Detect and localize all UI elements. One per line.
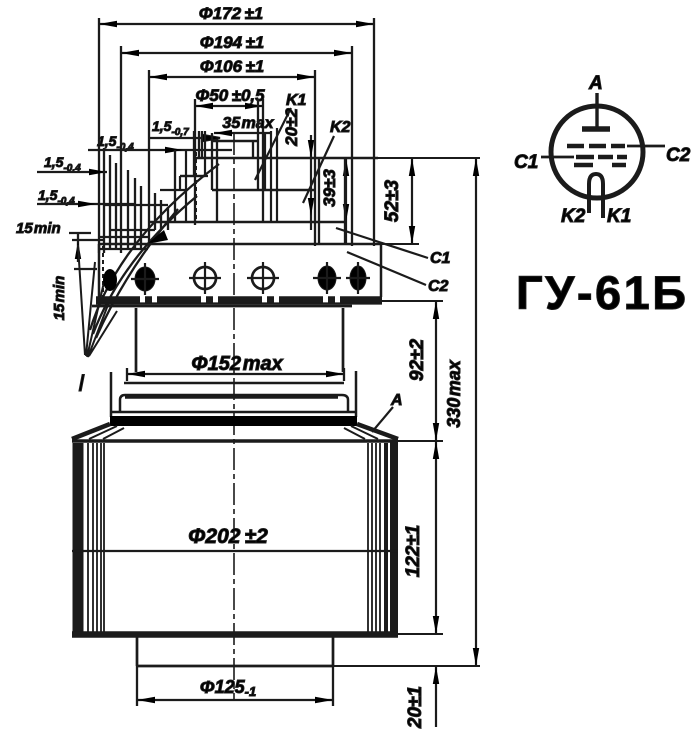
step y190 (212, 189, 315, 192)
svg-text:C1: C1 (514, 152, 538, 173)
svg-text:K1: K1 (286, 92, 307, 109)
svg-text:I: I (78, 370, 85, 397)
flange top (99, 243, 381, 246)
bottom cylinder (137, 637, 333, 666)
ceramic cylinder (136, 308, 343, 372)
dim 330max line (473, 158, 479, 666)
left cluster verticals (104, 148, 141, 253)
radiator top ext right (398, 440, 443, 442)
dim Φ106±1 line (149, 70, 315, 246)
svg-text:15 min: 15 min (16, 220, 61, 237)
dim 39±3 line (343, 158, 349, 244)
inner cap extras (202, 128, 277, 222)
svg-text:A: A (588, 73, 603, 94)
radiator right fin band (368, 443, 380, 632)
left small steps (99, 205, 168, 249)
ring y383 (124, 382, 344, 385)
bolt hole open 3 (189, 262, 221, 294)
svg-text:Φ152 max: Φ152 max (191, 353, 283, 375)
tube symbol envelope U1 (551, 106, 643, 198)
dim Φ50±0.5 line (195, 99, 263, 225)
svg-text:Φ172 ±1: Φ172 ±1 (199, 4, 264, 23)
svg-text:K2: K2 (330, 119, 351, 136)
wall x194 (194, 131, 199, 176)
leader A (372, 407, 393, 432)
leader line 1 (150, 135, 220, 141)
svg-text:C2: C2 (428, 278, 449, 295)
bolt hole dark 6 (346, 262, 370, 294)
dim Φ125 extensions (137, 666, 333, 706)
svg-text:K1: K1 (607, 206, 631, 227)
bottom ext right for 20 and 330 (333, 665, 480, 667)
dim 92±2 line (433, 301, 439, 441)
svg-text:20±2: 20±2 (282, 108, 301, 147)
grid row 1 dashes (567, 144, 625, 149)
svg-text:C2: C2 (666, 145, 691, 166)
anode lead (595, 93, 598, 128)
step y190 left part (160, 189, 186, 191)
dim 35max line (214, 130, 271, 136)
svg-text:35 max: 35 max (222, 115, 274, 132)
dim Φ125 line (137, 697, 333, 703)
svg-text:122±1: 122±1 (403, 525, 424, 578)
svg-text:ГУ-61Б: ГУ-61Б (516, 266, 689, 319)
bolt hole dark 5 (313, 262, 341, 294)
dim 15min vertical small (72, 233, 103, 269)
radiator top (72, 439, 398, 442)
bolt hole dark 2 (131, 263, 159, 295)
detail I sweep curves (90, 164, 219, 338)
ring band y395-412 (120, 395, 348, 412)
dim 52±3 line (409, 158, 415, 244)
dim Φ144±1 line (121, 46, 352, 253)
shelf y158 (194, 157, 378, 160)
svg-text:52±3: 52±3 (382, 180, 403, 223)
leader line 4 (37, 203, 135, 205)
grid row 2 dashes (576, 155, 627, 160)
walls to flange (319, 158, 345, 244)
radiator left fin band (73, 443, 84, 633)
leader C1 (336, 228, 428, 258)
anode bar (582, 126, 610, 132)
leader C2 (347, 252, 426, 285)
svg-text:A: A (390, 392, 403, 409)
flange top extension right (381, 243, 419, 245)
bolt hole dark 1 (103, 269, 117, 291)
flange bottom ext right (381, 300, 443, 302)
ceramic top line (92, 305, 352, 308)
cone (72, 424, 398, 439)
bolt hole open 4 (247, 262, 279, 294)
radiator mid line (72, 550, 398, 552)
svg-text:Φ50 ±0,5: Φ50 ±0,5 (195, 86, 265, 105)
hidden line dashed (195, 152, 197, 220)
svg-text:20±1: 20±1 (405, 686, 426, 729)
svg-text:Φ106 ±1: Φ106 ±1 (200, 57, 265, 76)
leader K2 (303, 136, 334, 203)
detail mark I fan lines (78, 245, 117, 357)
svg-text:39±3: 39±3 (320, 169, 339, 207)
step y176 (180, 175, 205, 177)
svg-text:92±2: 92±2 (407, 339, 428, 382)
centerline (233, 133, 235, 700)
dim 122±1 line (433, 441, 439, 634)
cap walls (212, 99, 258, 222)
ring bottom dark band (110, 416, 357, 426)
radiator bottom ext right (398, 633, 443, 635)
svg-text:K2: K2 (561, 206, 586, 227)
bottom cylinder bottom (137, 665, 333, 668)
filled leader arrow at flange edge (147, 230, 168, 244)
svg-text:330 max: 330 max (444, 359, 464, 428)
dim Φ172±1 line (99, 18, 374, 253)
svg-text:Φ194 ±1: Φ194 ±1 (200, 33, 265, 52)
shelf y158 extension to right dims (378, 157, 480, 159)
svg-text:C1: C1 (430, 250, 451, 267)
grid row 3 dashes (574, 163, 626, 168)
radiator bottom thick (72, 631, 398, 638)
C2 lead (627, 145, 665, 148)
dim Φ152 line (127, 368, 344, 381)
cathode U (589, 174, 603, 218)
top structure: cap top (212, 140, 258, 143)
svg-text:15 min: 15 min (51, 276, 68, 321)
shelf y222 (149, 221, 345, 224)
svg-text:Φ202 ±2: Φ202 ±2 (188, 525, 268, 548)
wall x180 (180, 150, 186, 222)
flange sides (99, 244, 381, 297)
leader K1 (255, 108, 291, 180)
C1 lead (541, 156, 574, 159)
leader line 2 (88, 149, 232, 151)
leader line 3 (37, 171, 107, 173)
flange bottom thick band (96, 296, 382, 303)
ring y412-422 (111, 371, 356, 417)
leader line 15min (69, 232, 91, 234)
dim 20±2 line (308, 135, 314, 230)
dim 20±1 line (433, 666, 439, 727)
